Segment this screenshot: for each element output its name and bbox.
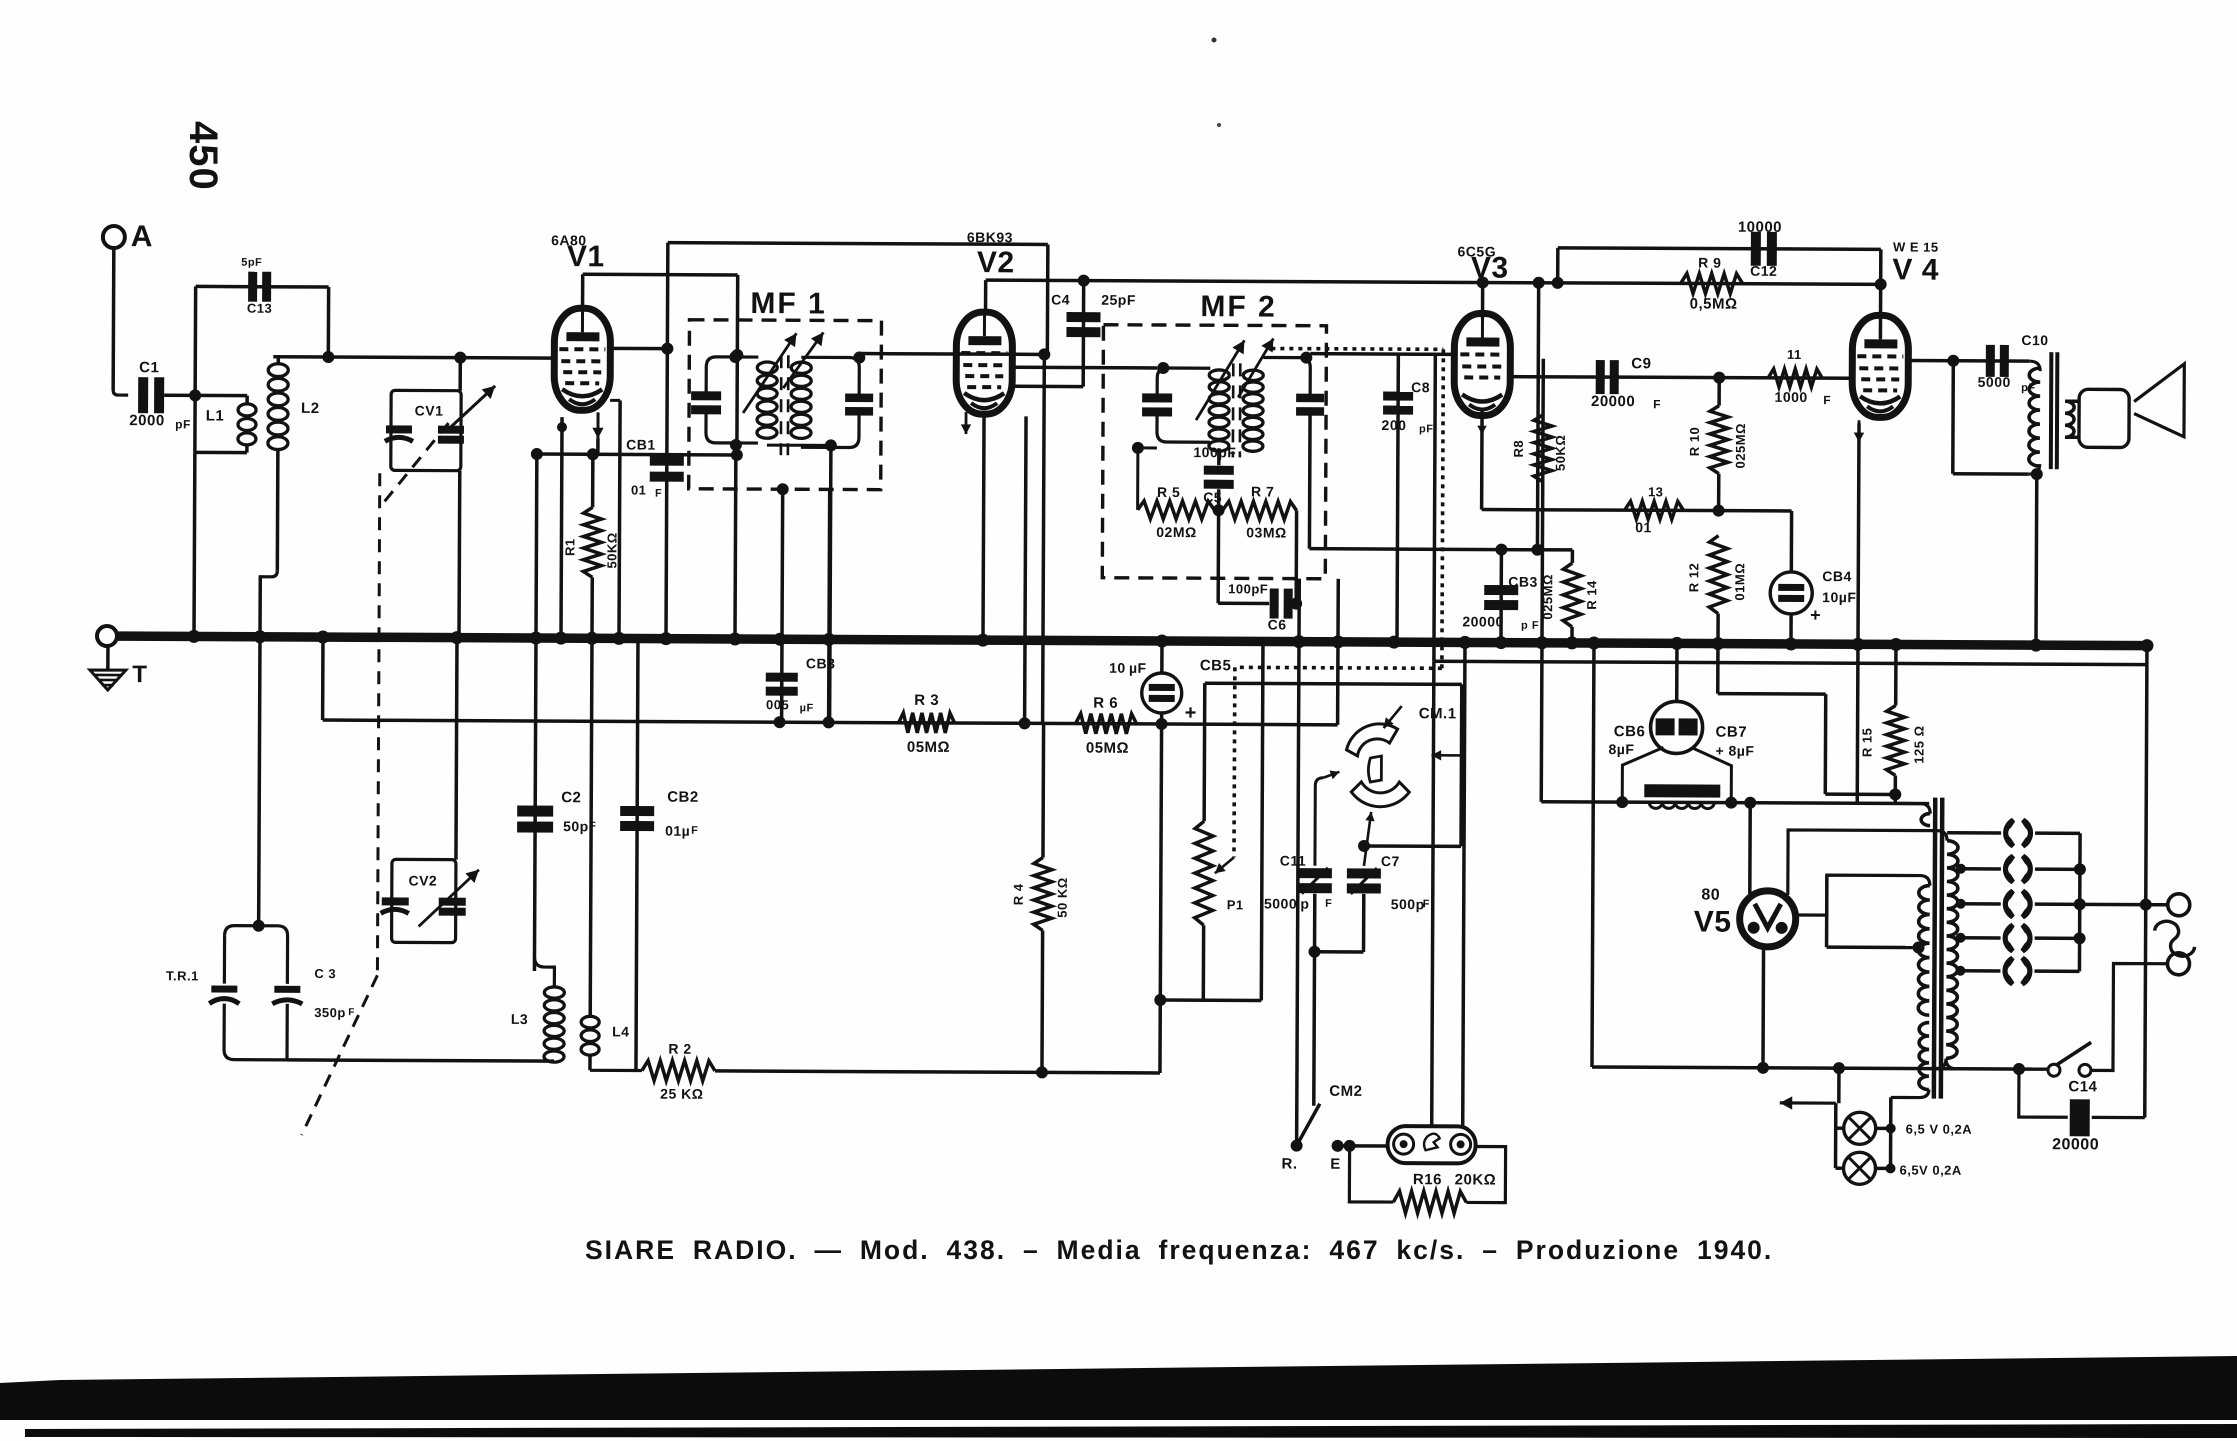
svg-text:20000: 20000 — [1462, 613, 1504, 629]
svg-text:C9: C9 — [1631, 355, 1651, 372]
svg-text:5pF: 5pF — [241, 257, 262, 269]
svg-text:100pF: 100pF — [1193, 444, 1236, 460]
svg-text:R 7: R 7 — [1251, 483, 1274, 499]
svg-text:+: + — [1810, 605, 1821, 625]
svg-text:CB3: CB3 — [806, 655, 836, 671]
svg-text:005: 005 — [766, 697, 789, 712]
svg-text:R8: R8 — [1511, 440, 1526, 458]
svg-text:50p: 50p — [563, 818, 589, 834]
svg-text:F: F — [1423, 898, 1430, 910]
svg-text:CB5: CB5 — [1200, 657, 1232, 674]
svg-text:MF 2: MF 2 — [1200, 290, 1276, 323]
svg-text:R16: R16 — [1413, 1171, 1442, 1188]
svg-text:6,5 V 0,2A: 6,5 V 0,2A — [1906, 1122, 1973, 1137]
svg-text:1000: 1000 — [1775, 389, 1808, 405]
svg-text:R 3: R 3 — [914, 692, 939, 709]
svg-text:A: A — [131, 220, 153, 253]
svg-text:pF: pF — [175, 417, 191, 431]
svg-text:10 µF: 10 µF — [1109, 660, 1147, 676]
svg-text:F: F — [348, 1007, 355, 1018]
svg-text:T.R.1: T.R.1 — [166, 968, 199, 983]
svg-text:CM.1: CM.1 — [1419, 705, 1457, 722]
svg-text:F: F — [589, 820, 596, 832]
svg-text:20KΩ: 20KΩ — [1455, 1171, 1497, 1188]
svg-text:03MΩ: 03MΩ — [1246, 524, 1287, 540]
svg-text:C7: C7 — [1381, 853, 1400, 869]
svg-text:8µF: 8µF — [1608, 741, 1634, 757]
svg-text:R 6: R 6 — [1093, 695, 1118, 712]
svg-text:CB6: CB6 — [1614, 723, 1646, 740]
svg-text:2000: 2000 — [129, 412, 164, 429]
svg-text:200: 200 — [1382, 417, 1407, 433]
svg-text:C10: C10 — [2021, 332, 2048, 348]
svg-text:CB7: CB7 — [1716, 724, 1748, 741]
svg-text:T: T — [132, 661, 147, 688]
svg-text:F: F — [1325, 898, 1332, 910]
svg-text:500p: 500p — [1391, 896, 1425, 912]
svg-text:C11: C11 — [1280, 853, 1306, 869]
svg-text:C1: C1 — [139, 359, 159, 376]
svg-text:25pF: 25pF — [1101, 292, 1136, 308]
svg-text:02MΩ: 02MΩ — [1156, 524, 1197, 540]
svg-text:+: + — [1185, 702, 1197, 724]
svg-text:01MΩ: 01MΩ — [1732, 563, 1747, 601]
svg-text:V1: V1 — [567, 240, 605, 273]
svg-text:10000: 10000 — [1738, 219, 1782, 236]
svg-text:C6: C6 — [1268, 616, 1287, 632]
svg-text:10µF: 10µF — [1822, 589, 1856, 605]
svg-text:C4: C4 — [1051, 291, 1070, 307]
svg-text:CM2: CM2 — [1329, 1083, 1362, 1100]
svg-text:20000: 20000 — [1591, 393, 1635, 410]
svg-text:R 5: R 5 — [1157, 484, 1180, 500]
svg-text:V3: V3 — [1471, 251, 1509, 284]
svg-text:6BK93: 6BK93 — [967, 229, 1013, 245]
svg-text:L2: L2 — [301, 400, 320, 417]
svg-text:80: 80 — [1701, 887, 1720, 904]
svg-text:µF: µF — [800, 702, 814, 714]
svg-text:SIARE RADIO. — Mod. 438. – Med: SIARE RADIO. — Mod. 438. – Media frequen… — [585, 1235, 1773, 1265]
svg-text:V 4: V 4 — [1892, 253, 1939, 286]
svg-text:C13: C13 — [247, 301, 272, 316]
svg-text:R 12: R 12 — [1686, 563, 1701, 593]
svg-text:+ 8µF: + 8µF — [1715, 743, 1754, 759]
svg-text:L3: L3 — [511, 1011, 528, 1027]
svg-text:11: 11 — [1787, 347, 1802, 362]
svg-text:CB2: CB2 — [667, 789, 699, 806]
svg-text:5000 p: 5000 p — [1264, 895, 1310, 911]
svg-text:C14: C14 — [2068, 1078, 2097, 1095]
svg-text:F: F — [1653, 397, 1661, 411]
svg-text:L4: L4 — [612, 1023, 629, 1039]
svg-text:R 15: R 15 — [1859, 728, 1874, 758]
svg-text:13: 13 — [1648, 484, 1664, 499]
svg-text:C12: C12 — [1750, 263, 1777, 279]
svg-text:05MΩ: 05MΩ — [907, 739, 950, 756]
svg-text:01: 01 — [1635, 519, 1652, 535]
svg-text:50KΩ: 50KΩ — [604, 532, 619, 568]
svg-text:6,5V 0,2A: 6,5V 0,2A — [1899, 1162, 1961, 1177]
svg-text:CB3: CB3 — [1508, 574, 1538, 590]
svg-text:F: F — [691, 825, 698, 837]
svg-text:025MΩ: 025MΩ — [1733, 423, 1748, 469]
svg-text:pF: pF — [1419, 423, 1434, 435]
svg-text:L1: L1 — [206, 407, 225, 424]
svg-text:50 KΩ: 50 KΩ — [1055, 877, 1070, 917]
svg-text:p F: p F — [1521, 620, 1539, 632]
svg-text:W E 15: W E 15 — [1893, 239, 1939, 254]
svg-text:CB4: CB4 — [1822, 568, 1852, 584]
svg-text:20000: 20000 — [2052, 1136, 2099, 1153]
svg-text:F: F — [655, 488, 662, 500]
svg-text:100pF: 100pF — [1228, 581, 1268, 596]
svg-text:R1: R1 — [562, 538, 577, 556]
svg-text:450: 450 — [181, 121, 225, 191]
svg-text:R 14: R 14 — [1584, 580, 1599, 610]
svg-text:CV1: CV1 — [415, 402, 444, 418]
svg-text:C8: C8 — [1411, 379, 1430, 395]
svg-text:CB1: CB1 — [626, 436, 656, 452]
svg-text:R 9: R 9 — [1698, 255, 1721, 271]
svg-text:F: F — [1823, 393, 1831, 407]
svg-text:MF 1: MF 1 — [750, 287, 826, 320]
svg-text:01: 01 — [631, 482, 647, 497]
svg-text:125 Ω: 125 Ω — [1911, 725, 1926, 763]
svg-text:R 4: R 4 — [1011, 883, 1026, 905]
svg-text:01µ: 01µ — [665, 823, 690, 839]
svg-text:R 2: R 2 — [668, 1041, 691, 1057]
svg-text:C2: C2 — [561, 789, 581, 806]
svg-text:05MΩ: 05MΩ — [1086, 740, 1129, 757]
svg-text:E: E — [1330, 1156, 1341, 1173]
svg-text:R.: R. — [1281, 1156, 1297, 1173]
svg-text:0,5MΩ: 0,5MΩ — [1690, 295, 1738, 312]
svg-text:5000: 5000 — [1978, 374, 2011, 390]
svg-text:25 KΩ: 25 KΩ — [660, 1086, 703, 1102]
svg-text:V2: V2 — [977, 246, 1015, 279]
svg-text:C 3: C 3 — [314, 966, 336, 981]
svg-text:R 10: R 10 — [1687, 427, 1702, 457]
svg-text:350p: 350p — [314, 1005, 346, 1020]
svg-text:50KΩ: 50KΩ — [1553, 435, 1568, 471]
svg-text:V5: V5 — [1694, 905, 1732, 938]
svg-text:P1: P1 — [1227, 897, 1244, 912]
svg-text:CV2: CV2 — [408, 872, 437, 888]
